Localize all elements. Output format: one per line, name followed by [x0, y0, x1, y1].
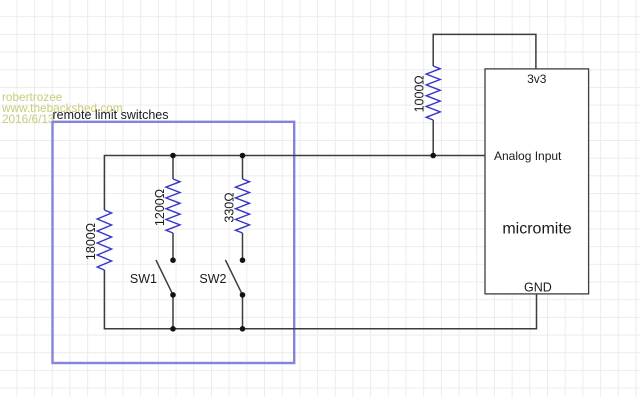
- svg-text:1000Ω: 1000Ω: [413, 75, 427, 112]
- svg-text:1800Ω: 1800Ω: [84, 223, 98, 260]
- svg-text:1200Ω: 1200Ω: [153, 189, 167, 226]
- svg-text:3v3: 3v3: [527, 72, 547, 86]
- svg-text:GND: GND: [524, 281, 552, 295]
- svg-text:Analog Input: Analog Input: [494, 149, 562, 163]
- svg-text:micromite: micromite: [502, 221, 571, 238]
- svg-text:SW1: SW1: [130, 272, 157, 286]
- svg-text:330Ω: 330Ω: [223, 192, 237, 222]
- svg-text:SW2: SW2: [199, 272, 226, 286]
